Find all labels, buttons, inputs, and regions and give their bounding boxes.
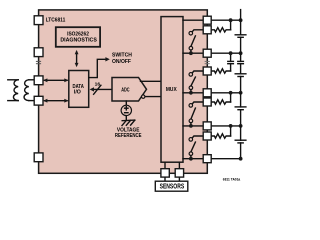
switch S1 [189, 136, 203, 161]
wire S11 riser with break to C11 node [230, 64, 232, 71]
pin S11 [203, 67, 211, 75]
wire ADC upper output to MUX [141, 80, 162, 82]
wire secondary top lead [29, 79, 34, 81]
box ISO26262 DIAGNOSTICS [56, 27, 100, 47]
svg-text:MUX: MUX [166, 87, 177, 93]
pin S12 [203, 26, 211, 34]
junction C1 node [229, 124, 233, 128]
wire vertical double arrow ISO box to DATA I/O [76, 52, 78, 65]
wire S12 riser to C12 node [230, 20, 232, 30]
wire GPIO2 pin to SENSORS [178, 177, 180, 181]
wire ADC lower output to MUX [145, 96, 161, 98]
wire GPIO1 pin to SENSORS [164, 177, 166, 181]
svg-text:SWITCH: SWITCH [112, 53, 132, 59]
transformer T1 [8, 80, 34, 101]
source voltage reference [121, 105, 131, 115]
wire S2 riser to C2 node [230, 93, 232, 102]
block ADC [112, 78, 147, 102]
wire ADC to voltage reference [125, 101, 127, 105]
break marks middle column [228, 61, 234, 63]
wire battery stack top stub [240, 10, 242, 21]
pin S1 [203, 132, 211, 140]
chip LTC6811 body [39, 10, 208, 173]
box SENSORS [155, 181, 188, 191]
svg-text:DIAGNOSTICS: DIAGNOSTICS [60, 37, 97, 43]
wire MUX stub to GPIO1 pin [164, 162, 166, 169]
svg-text:REFERENCE: REFERENCE [115, 133, 142, 139]
wire C12 tap [183, 19, 241, 21]
svg-text:SENSORS: SENSORS [160, 183, 185, 191]
wire C0 tap [183, 158, 241, 160]
resistor R2 [211, 100, 230, 104]
ground chassis [122, 120, 135, 125]
battery cell 1 [240, 126, 242, 140]
resistor R12 [211, 28, 230, 32]
svg-text:LTC6811: LTC6811 [46, 17, 66, 23]
junction C12 node [229, 18, 233, 22]
wire primary bottom lead [8, 100, 18, 102]
wire C1 tap [183, 125, 241, 127]
break marks battery column [240, 53, 242, 61]
pin V- [34, 153, 43, 162]
resistor R11 [211, 69, 230, 73]
wire C11 tap [183, 52, 241, 54]
wire secondary bottom lead [29, 100, 34, 102]
pin C11 [203, 49, 211, 57]
switch S12 [189, 30, 203, 55]
resistor R1 [211, 134, 230, 138]
pin GPIO1 [161, 169, 169, 177]
block MUX [161, 17, 183, 163]
wire SWITCH ON/OFF control [89, 59, 107, 77]
svg-text:ADC: ADC [121, 87, 129, 93]
coil primary winding [13, 80, 18, 101]
battery cell 2 [240, 93, 242, 107]
svg-text:I/O: I/O [74, 90, 82, 96]
pin S2 [203, 98, 211, 106]
pin GPIO2 [175, 169, 183, 177]
wire MUX stub to GPIO2 pin [178, 162, 180, 169]
switch S2 [189, 102, 203, 128]
pin C0 [203, 155, 211, 163]
break marks chip left edge [36, 61, 41, 63]
battery cell 11 [240, 64, 242, 74]
pin C12 [203, 16, 211, 24]
bus slash mark [94, 85, 101, 94]
coil secondary winding [24, 80, 29, 101]
wire C2 tap [183, 92, 241, 94]
wire VREF to ground [125, 116, 127, 121]
pin C1 [203, 122, 211, 130]
svg-text:6811 TA01a: 6811 TA01a [223, 177, 241, 182]
junction C2 node [229, 91, 233, 95]
pin IPA [34, 76, 43, 85]
pin C2 [203, 89, 211, 97]
inverter bubble on ADC lower output [142, 95, 145, 98]
switch S11 [189, 71, 203, 95]
svg-text:16: 16 [95, 82, 101, 87]
wire isoSPI IMA double arrow [45, 100, 68, 102]
svg-text:ON/OFF: ON/OFF [112, 59, 132, 65]
pin IMB [34, 48, 43, 57]
pin IPB [34, 16, 43, 25]
junction C11 node [229, 51, 233, 55]
battery cell 12 [240, 20, 242, 35]
wire primary top lead [8, 79, 18, 81]
wire 16-bit bus DATA I/O to ADC [92, 88, 112, 90]
pin IMA [34, 96, 43, 105]
wire isoSPI IPA double arrow [45, 79, 68, 81]
break marks chip right edge [205, 61, 210, 63]
wire S1 riser to C1 node [230, 126, 232, 136]
box DATA I/O [69, 71, 89, 108]
